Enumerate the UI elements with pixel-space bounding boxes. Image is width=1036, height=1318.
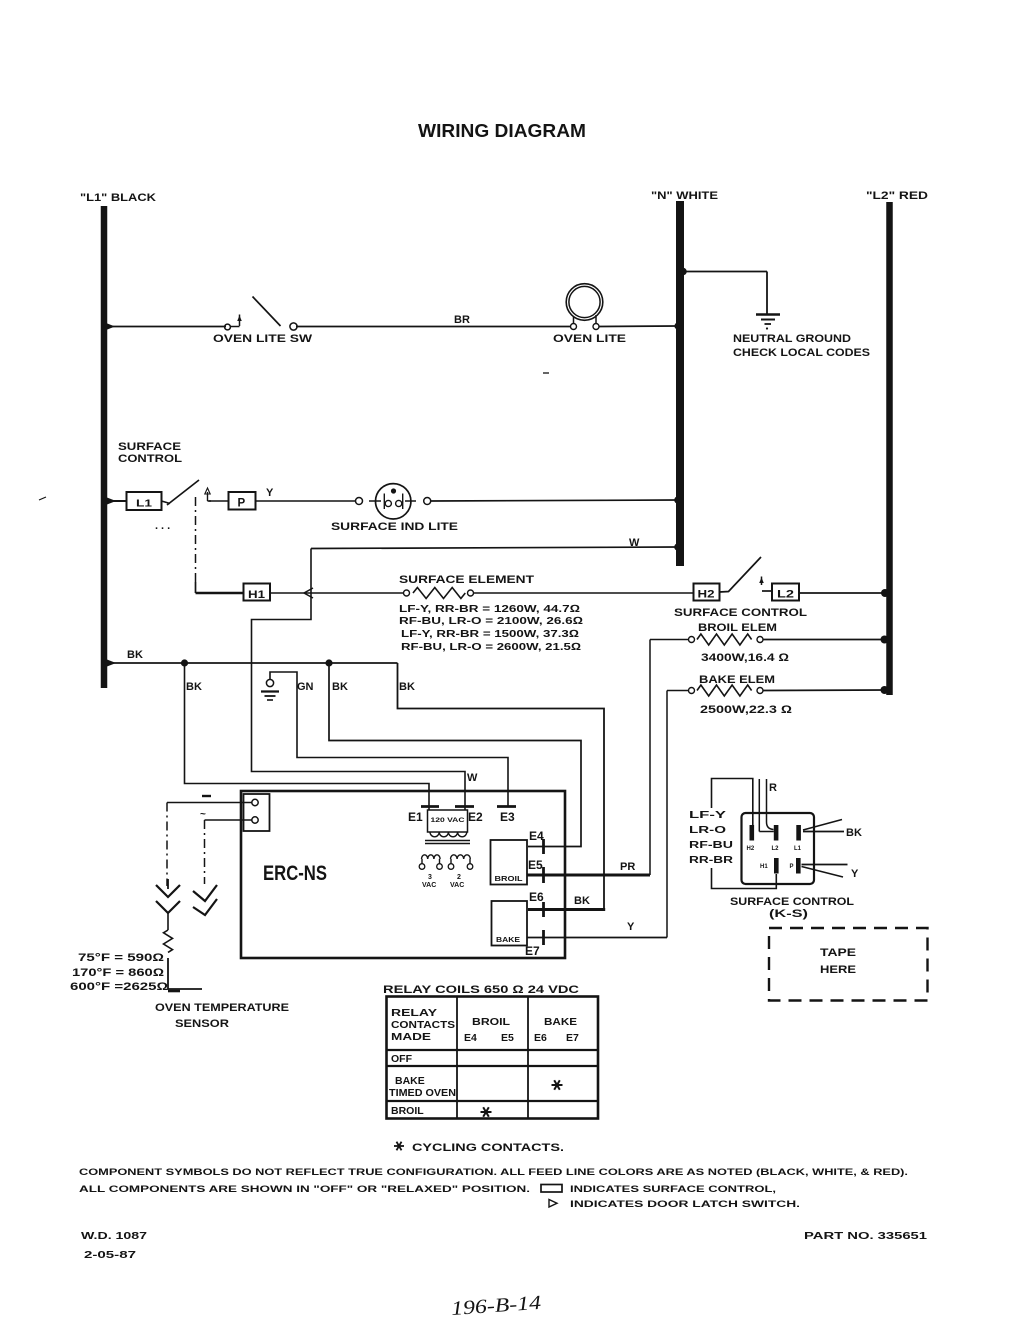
- wire W to N bus: [252, 537, 682, 806]
- sensor plug chevrons right: [193, 885, 217, 915]
- wire Y bake elem to E7: [666, 691, 668, 938]
- svg-text:P: P: [790, 864, 794, 870]
- terminal box H2: [694, 584, 720, 601]
- wire oven lite lamp to N bus: [599, 322, 682, 329]
- table relay contacts: [387, 997, 599, 1119]
- svg-text:TAPE: TAPE: [820, 947, 856, 959]
- wire Y from P to ind lite: [256, 487, 357, 501]
- svg-text:BK: BK: [574, 895, 590, 907]
- svg-text:RR-BR: RR-BR: [689, 854, 734, 866]
- wire BK branch to E6: [398, 663, 606, 910]
- svg-text:E5: E5: [501, 1032, 514, 1044]
- resistor SURFACE ELEMENT: [399, 574, 694, 599]
- svg-text:RELAY COILS 650 Ω 24 VDC: RELAY COILS 650 Ω 24 VDC: [383, 984, 579, 996]
- svg-text:CHECK LOCAL CODES: CHECK LOCAL CODES: [733, 347, 870, 359]
- transformer secondary 2 VAC: [448, 855, 473, 889]
- cycling contact mark broil: [481, 1107, 492, 1117]
- svg-text:BROIL: BROIL: [472, 1016, 511, 1028]
- svg-text:E4: E4: [464, 1032, 477, 1044]
- svg-text:VAC: VAC: [450, 882, 464, 889]
- svg-text:SURFACE: SURFACE: [118, 441, 181, 453]
- contact with door latch arrow at P: [205, 488, 211, 501]
- svg-text:GN: GN: [297, 681, 314, 693]
- relay BROIL: [491, 840, 528, 885]
- svg-text:SURFACE CONTROL: SURFACE CONTROL: [674, 607, 807, 619]
- svg-text:170°F = 860Ω: 170°F = 860Ω: [72, 967, 165, 979]
- svg-text:Y: Y: [266, 487, 274, 499]
- wire L2 box to L2 bus: [674, 589, 889, 619]
- wire ind lite to N bus: [431, 496, 682, 504]
- svg-text:E2: E2: [468, 810, 483, 824]
- svg-text:E1: E1: [408, 810, 423, 824]
- terminal E5: [528, 858, 544, 883]
- resistor BAKE ELEM: [667, 674, 889, 716]
- feed bus L1 (black): [80, 192, 156, 688]
- svg-text:INDICATES SURFACE CONTROL,: INDICATES SURFACE CONTROL,: [570, 1184, 776, 1195]
- resistor OVEN TEMPERATURE SENSOR: [164, 913, 203, 991]
- svg-text:BK: BK: [399, 681, 415, 693]
- svg-text:CONTACTS: CONTACTS: [391, 1019, 455, 1031]
- title: [418, 120, 586, 141]
- svg-text:(K-S): (K-S): [769, 908, 808, 920]
- lamp OVEN LITE: [543, 284, 626, 373]
- wire bracket key to pin H1: [712, 868, 777, 889]
- svg-text:VAC: VAC: [422, 882, 436, 889]
- svg-text:P: P: [238, 498, 246, 510]
- svg-text:COMPONENT SYMBOLS DO NOT REFLE: COMPONENT SYMBOLS DO NOT REFLECT TRUE CO…: [79, 1167, 908, 1178]
- svg-text:CONTROL: CONTROL: [118, 453, 182, 465]
- wire H1 to surface element: [270, 588, 404, 598]
- wire L1 bus to oven lite switch: [106, 323, 240, 330]
- svg-text:E4: E4: [529, 829, 544, 843]
- svg-text:BK: BK: [332, 681, 348, 693]
- terminal box P: [229, 492, 256, 510]
- svg-text:Y: Y: [851, 868, 859, 880]
- switch OVEN LITE SW: [213, 297, 313, 346]
- svg-text:"L2" RED: "L2" RED: [866, 190, 928, 202]
- svg-text:RF-BU: RF-BU: [689, 839, 733, 851]
- connector sensor input: [200, 794, 270, 831]
- svg-text:OVEN TEMPERATURE: OVEN TEMPERATURE: [155, 1002, 289, 1014]
- svg-text:R: R: [769, 782, 777, 794]
- terminal E7: [525, 921, 667, 958]
- svg-text:"N" WHITE: "N" WHITE: [651, 190, 718, 202]
- wire dashed sensor lead 1: [166, 803, 168, 887]
- svg-text:RF-BU, LR-O = 2600W, 21.5Ω: RF-BU, LR-O = 2600W, 21.5Ω: [401, 641, 581, 653]
- svg-text:H1: H1: [248, 589, 265, 601]
- svg-text:PART NO. 335651: PART NO. 335651: [804, 1230, 927, 1242]
- svg-text:ERC-NS: ERC-NS: [263, 862, 327, 885]
- feed bus L2 (red): [866, 190, 928, 695]
- wire BK from L1 bus: [107, 649, 398, 667]
- wire BR oven lite switch to lamp: [296, 314, 570, 327]
- svg-text:2: 2: [457, 874, 461, 881]
- svg-text:LF-Y: LF-Y: [689, 809, 726, 821]
- svg-text:LF-Y, RR-BR = 1260W, 44.7Ω: LF-Y, RR-BR = 1260W, 44.7Ω: [399, 603, 580, 615]
- terminal E4: [529, 829, 544, 854]
- svg-text:L1: L1: [136, 498, 152, 510]
- resistor BROIL ELEM: [650, 622, 889, 664]
- svg-text:BROIL: BROIL: [495, 876, 524, 883]
- svg-text:BROIL: BROIL: [391, 1105, 424, 1117]
- svg-text:W.D. 1087: W.D. 1087: [81, 1230, 147, 1242]
- svg-text:75°F = 590Ω: 75°F = 590Ω: [78, 952, 165, 964]
- lamp SURFACE IND LITE: [331, 484, 458, 533]
- feed bus N (white): [651, 190, 718, 566]
- svg-text:E7: E7: [525, 944, 540, 958]
- wire R to pin L2: [759, 779, 777, 832]
- terminal E6: [529, 890, 590, 917]
- sensor plug chevrons left: [156, 879, 180, 913]
- ground GN chassis: [261, 679, 314, 700]
- wire E5 to PR: [527, 861, 650, 875]
- wire L1 bus to terminal L1: [107, 498, 127, 505]
- note door latch switch: [549, 1199, 800, 1210]
- pointer BK to pin L1: [803, 820, 862, 840]
- terminal box L2: [772, 584, 799, 601]
- svg-text:H2: H2: [698, 589, 715, 601]
- footer drawing number: [81, 1230, 927, 1261]
- svg-text:WIRING DIAGRAM: WIRING DIAGRAM: [418, 120, 586, 141]
- connector SURFACE CONTROL (K-S): [730, 813, 854, 920]
- svg-text:INDICATES DOOR LATCH SWITCH.: INDICATES DOOR LATCH SWITCH.: [570, 1199, 800, 1210]
- svg-text:OVEN LITE: OVEN LITE: [553, 333, 626, 345]
- svg-text:BK: BK: [846, 827, 862, 839]
- svg-text:MADE: MADE: [391, 1031, 431, 1043]
- label surface element ratings: [399, 603, 583, 653]
- svg-text:E6: E6: [534, 1032, 547, 1044]
- svg-text:ALL COMPONENTS ARE SHOWN IN "O: ALL COMPONENTS ARE SHOWN IN "OFF" OR "RE…: [79, 1184, 530, 1195]
- wire sensor leads: [167, 803, 252, 821]
- wire GN to E3: [270, 672, 508, 806]
- svg-text:E3: E3: [500, 810, 515, 824]
- wire bracket key to pin H2: [712, 779, 753, 827]
- svg-text:L2: L2: [777, 589, 794, 601]
- terminal box H1: [244, 584, 271, 602]
- label surface unit color key: [689, 809, 734, 866]
- svg-text:E6: E6: [529, 890, 544, 904]
- svg-text:~: ~: [200, 809, 206, 820]
- wire PR broil elem to E5: [649, 640, 651, 876]
- svg-text:Y: Y: [627, 921, 635, 933]
- svg-text:3: 3: [428, 874, 432, 881]
- svg-text:BAKE: BAKE: [496, 937, 520, 944]
- svg-text:BK: BK: [186, 681, 202, 693]
- svg-text:L1: L1: [794, 846, 802, 852]
- svg-text:RF-BU, LR-O = 2100W, 26.6Ω: RF-BU, LR-O = 2100W, 26.6Ω: [399, 615, 583, 627]
- svg-text:E7: E7: [566, 1032, 579, 1044]
- svg-text:2500W,22.3 Ω: 2500W,22.3 Ω: [700, 704, 793, 716]
- control box ERC-NS: [241, 791, 565, 958]
- svg-text:LR-O: LR-O: [689, 824, 726, 836]
- svg-text:"L1" BLACK: "L1" BLACK: [80, 192, 156, 204]
- label SURFACE CONTROL (left): [39, 441, 182, 500]
- svg-text:H1: H1: [760, 864, 768, 870]
- mechanical link dashed to H1: [195, 497, 197, 593]
- svg-text:BAKE ELEM: BAKE ELEM: [699, 674, 775, 686]
- transformer primary 120 VAC: [408, 807, 516, 844]
- svg-text:BAKE: BAKE: [544, 1016, 577, 1028]
- svg-text:3400W,16.4 Ω: 3400W,16.4 Ω: [701, 652, 790, 664]
- transformer secondary 3 VAC: [419, 855, 442, 889]
- box TAPE HERE (dashed): [769, 928, 928, 1001]
- svg-text:H2: H2: [747, 846, 755, 852]
- ground NEUTRAL GROUND: [733, 315, 870, 360]
- wire N bus to neutral ground: [679, 268, 767, 314]
- svg-text:RELAY: RELAY: [391, 1007, 437, 1019]
- svg-text:PR: PR: [620, 861, 635, 873]
- note all components off: [79, 1184, 776, 1195]
- svg-text:SENSOR: SENSOR: [175, 1018, 229, 1030]
- wire BK branch to E1: [185, 663, 430, 806]
- svg-text:W: W: [467, 772, 478, 784]
- svg-text:600°F =2625Ω: 600°F =2625Ω: [70, 981, 169, 993]
- switch blade surface control: [155, 480, 199, 532]
- svg-text:OVEN LITE SW: OVEN LITE SW: [213, 333, 313, 345]
- svg-text:BK: BK: [127, 649, 143, 661]
- svg-text:E5: E5: [528, 858, 543, 872]
- svg-text:SURFACE IND LITE: SURFACE IND LITE: [331, 521, 458, 533]
- svg-text:HERE: HERE: [820, 964, 856, 976]
- svg-text:...: ...: [155, 520, 173, 532]
- svg-text:BR: BR: [454, 314, 470, 326]
- svg-text:OFF: OFF: [391, 1053, 413, 1065]
- svg-text:BROIL ELEM: BROIL ELEM: [698, 622, 777, 634]
- svg-text:L2: L2: [772, 846, 780, 852]
- cycling contact mark bake: [552, 1080, 563, 1090]
- svg-text:SURFACE ELEMENT: SURFACE ELEMENT: [399, 574, 534, 586]
- wire BK branch to E4: [329, 663, 581, 847]
- svg-text:LF-Y, RR-BR = 1500W, 37.3Ω: LF-Y, RR-BR = 1500W, 37.3Ω: [401, 628, 579, 640]
- svg-text:TIMED OVEN: TIMED OVEN: [389, 1087, 456, 1099]
- svg-text:NEUTRAL GROUND: NEUTRAL GROUND: [733, 333, 851, 345]
- svg-text:SURFACE CONTROL: SURFACE CONTROL: [730, 896, 854, 908]
- note cycling contacts: [394, 1142, 564, 1154]
- svg-text:120 VAC: 120 VAC: [431, 817, 465, 824]
- wire link to H1: [196, 592, 245, 595]
- terminal box L1: [127, 492, 162, 510]
- svg-text:2-05-87: 2-05-87: [84, 1249, 136, 1261]
- wire contact to P: [209, 500, 229, 502]
- svg-text:CYCLING CONTACTS.: CYCLING CONTACTS.: [412, 1142, 564, 1154]
- switch blade surface control H2-L2: [720, 557, 773, 592]
- pointer Y to pin P: [802, 865, 860, 881]
- relay BAKE: [492, 901, 528, 946]
- svg-text:BAKE: BAKE: [395, 1075, 425, 1087]
- wire dashed sensor lead 2: [204, 820, 206, 884]
- label sensor resistance values: [70, 952, 289, 1030]
